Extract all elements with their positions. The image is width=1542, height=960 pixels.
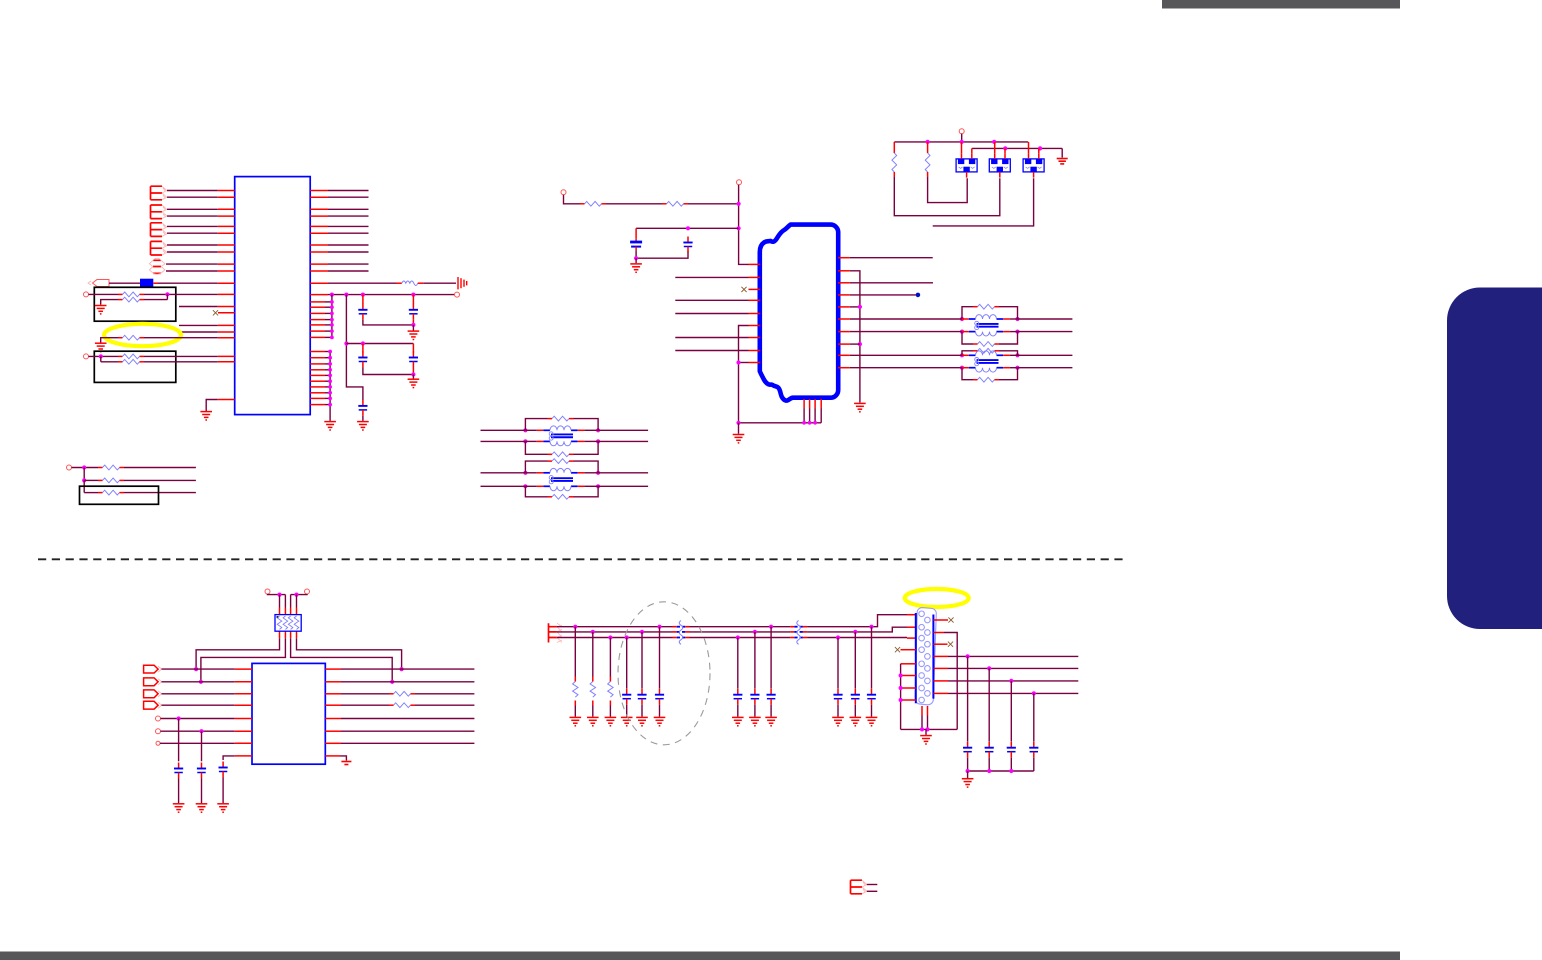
pin U1 left row 14 (NC) xyxy=(218,312,235,314)
header bar xyxy=(1162,0,1400,9)
pin U1 left row 9 xyxy=(218,263,235,265)
wire bus0 row 10 xyxy=(325,404,330,406)
wire U2 gnd bus xyxy=(739,326,822,423)
junction bus0 row 7 xyxy=(328,385,332,389)
pin U1 left row 13 xyxy=(218,306,235,308)
wire C15 to ground xyxy=(754,705,756,717)
junction T4 in2 xyxy=(523,484,527,488)
pin U1 left row 1 xyxy=(218,190,235,192)
junction bus1 row 7 xyxy=(330,336,334,340)
pin U1 right row 12 xyxy=(310,294,328,296)
resistor R12 xyxy=(925,148,930,177)
wire U2 left 313 xyxy=(675,313,748,315)
pin pack bottom xyxy=(284,631,286,638)
pin U2 bottom 2 xyxy=(809,399,811,409)
capacitor C11 xyxy=(622,689,631,705)
wire C18 to rail xyxy=(988,758,990,771)
wire ground to R3 xyxy=(101,338,118,343)
wire U2 left 337 xyxy=(675,337,748,339)
wire U2 right 306 xyxy=(850,306,860,308)
wire U2 left 350 xyxy=(675,350,748,352)
capacitor C13 xyxy=(655,689,664,705)
bus wire 1 seg a xyxy=(557,626,673,628)
wire junction drop xyxy=(100,356,102,361)
pin U1 left row 19 xyxy=(218,361,235,363)
common-mode choke T2 xyxy=(962,351,1018,372)
pin U1 right bus1 row 4 xyxy=(310,319,325,321)
wire bus0 row 2 xyxy=(325,357,330,359)
bus connector (dual arrow, bottom) xyxy=(851,880,867,894)
wire T4 rbot right xyxy=(574,486,599,497)
wire U1 right row 9 xyxy=(328,263,369,265)
wire U2 bottom 1 xyxy=(803,409,805,423)
resistor R15 xyxy=(573,677,578,706)
off-page connector (round) pack B xyxy=(305,589,310,594)
ground below C4 xyxy=(408,379,420,387)
wire C9 to ground xyxy=(201,779,203,804)
bus wire 3 seg b xyxy=(690,637,791,639)
wire R17 drop xyxy=(609,638,611,677)
ground pin bus 0 xyxy=(324,422,336,430)
wire into T4 b xyxy=(481,485,526,487)
pin U1 left row 10 xyxy=(218,270,235,272)
wire T3 rtop left xyxy=(525,419,547,431)
wire out T4 b xyxy=(598,485,648,487)
wire U1 left row 19 xyxy=(144,361,218,363)
junction shell gnd xyxy=(925,727,929,731)
junction bus0 row 10 xyxy=(328,403,332,407)
pin U1 left row 17 xyxy=(218,337,235,339)
pin U3 right row 7 xyxy=(325,742,341,744)
capacitor C15 xyxy=(750,689,759,705)
pin U1 left row 16 xyxy=(218,331,235,333)
net stub dot (blue) xyxy=(916,293,921,298)
junction row1 right xyxy=(400,667,404,671)
wire U3 right row 2 xyxy=(341,681,474,683)
wire sub row 2 xyxy=(84,479,98,481)
wire bus0 row 6 xyxy=(325,380,330,382)
ground U2 left xyxy=(733,435,745,443)
junction bus0 row 1 xyxy=(328,350,332,354)
bus connector pair 3 xyxy=(151,223,167,237)
footer bar xyxy=(0,952,1400,960)
wire CN1 signal y656 xyxy=(948,655,1078,657)
wire out T2 b xyxy=(1018,367,1073,369)
wire row 362 to bus xyxy=(739,362,749,364)
wire U2 right 331 xyxy=(850,331,941,333)
ground below C15 xyxy=(749,717,761,725)
wire U3 right row 3a xyxy=(341,693,389,695)
input arrow connector 2 xyxy=(144,678,162,686)
input arrow connector 4 xyxy=(144,701,162,709)
module U2 (thick outline) xyxy=(760,225,838,401)
wire U1 left row 4 xyxy=(167,215,218,217)
junction bus2/cap rail xyxy=(344,341,348,345)
pin U1 left row 2 xyxy=(218,196,235,198)
pin U2 bottom 4 xyxy=(820,399,822,409)
wire into T3 b xyxy=(481,440,526,442)
pin CN1 shell x922 xyxy=(921,706,923,716)
junction row1 left xyxy=(194,667,198,671)
wire C20 drop xyxy=(1033,693,1035,741)
pin U2 bottom 3 xyxy=(814,399,816,409)
wire shell to gnd rail xyxy=(921,716,923,730)
ground below C6 xyxy=(630,264,642,272)
pin U2 left y277 xyxy=(749,276,761,278)
junction cap rail C3 xyxy=(361,341,365,345)
wire U2 right 344 xyxy=(850,343,860,345)
junction T1 out1 xyxy=(1015,317,1019,321)
pin U1 right bus0 row 8 xyxy=(310,392,325,394)
wire U3 left row 7 xyxy=(160,742,235,744)
resistor R16 xyxy=(590,677,595,706)
junction rail b xyxy=(987,769,991,773)
wire pack top lead xyxy=(284,595,286,608)
wire U3 left row 2 xyxy=(162,681,235,683)
pin U2 left y325 xyxy=(749,325,761,327)
pin U1 right bus1 row 3 xyxy=(310,312,325,314)
bus wire 3 seg c xyxy=(807,637,907,639)
resistor R3 xyxy=(118,335,144,340)
junction C21 xyxy=(836,635,840,639)
wire R11 to Y2 bottom xyxy=(894,177,1000,216)
off-page connector (round) U3 row7 xyxy=(156,741,160,745)
pin CN1 y688 xyxy=(901,687,916,689)
junction C23 xyxy=(869,625,873,629)
wire rail 1 xyxy=(894,141,1028,143)
wire U3 right row 6 xyxy=(341,730,474,732)
wire U2 left 300 xyxy=(675,299,748,301)
wire U3 right row 7 xyxy=(341,742,474,744)
junction C14 xyxy=(736,635,740,639)
resistor R11 xyxy=(892,148,897,177)
wire U1 left row 7 xyxy=(167,244,218,246)
junction R15 xyxy=(573,625,577,629)
wire packB top xyxy=(291,593,307,596)
junction T3 out1 xyxy=(596,428,600,432)
wire T4 rtop left xyxy=(525,461,547,473)
pin pack bottom xyxy=(279,631,281,638)
junction T4 out1 xyxy=(596,471,600,475)
pin C1 top lead xyxy=(362,295,364,304)
pin CN1 p2 xyxy=(907,626,916,628)
resistor T1 top xyxy=(973,304,999,309)
ground U1 bottom-left xyxy=(200,412,212,420)
pin CN1 y693 xyxy=(933,692,948,694)
junction bus0 row 3 xyxy=(328,362,332,366)
ground CN1 xyxy=(920,736,932,744)
bus wire 3 seg a xyxy=(557,637,673,639)
resistor R9 xyxy=(580,201,606,206)
off-page connector (round) mid-left xyxy=(561,190,566,195)
wire C21 to ground xyxy=(837,705,839,717)
wire T2 rtop right xyxy=(999,351,1018,356)
ground below C9 xyxy=(196,804,208,812)
wire cap gnd rail xyxy=(968,770,1034,772)
pin U1 right bus0 row 7 xyxy=(310,386,325,388)
wire U1 left row 15 xyxy=(179,324,218,326)
junction bus1 row 4 xyxy=(330,318,334,322)
wire U1 left row 3 xyxy=(167,208,218,210)
pin U3 right row 4 xyxy=(325,704,341,706)
wire to ground xyxy=(925,729,927,735)
bus connector pair 4 xyxy=(151,241,167,255)
ground below R16 xyxy=(587,717,599,725)
wire CN1 p11 loop xyxy=(944,633,957,730)
no-connect X CN1 p4 xyxy=(895,647,900,652)
no-connect X CN1 p12 xyxy=(948,642,953,647)
junction bus0 row 4 xyxy=(328,368,332,372)
pin U3 right row 5 xyxy=(325,718,341,720)
junction rail/caps xyxy=(737,226,741,230)
pin U1 right row 7 xyxy=(310,244,328,246)
off-page connector (round) top-right xyxy=(959,129,964,134)
pin U1 right bus0 row 4 xyxy=(310,369,325,371)
wire into T1 a xyxy=(941,318,962,320)
resistor R8 xyxy=(98,490,124,495)
wire out T4 a xyxy=(598,472,648,474)
wire into T1 b xyxy=(941,331,962,333)
side tab xyxy=(1447,288,1542,630)
ground below R17 xyxy=(605,717,617,725)
wire sub drop 2 xyxy=(83,480,85,492)
wire bus0 row 9 xyxy=(325,397,330,399)
junction gnd bus row 362 xyxy=(736,360,740,364)
pin FB1 right lead xyxy=(153,282,158,284)
wire CN1 signal y680 xyxy=(948,680,1078,682)
wire packA top xyxy=(268,593,286,596)
wire branch bus 2 xyxy=(346,295,363,400)
junction T2 out1 xyxy=(1015,353,1019,357)
bidirectional round connector pair xyxy=(149,258,165,274)
capacitor C4 xyxy=(409,352,418,368)
wire U3 right row 4b xyxy=(415,704,474,706)
wire U1 right row 8 xyxy=(328,251,369,253)
wire Y3 bottom out xyxy=(933,178,1034,226)
wire C19 to rail xyxy=(1010,758,1012,771)
bus wire 1 seg b xyxy=(690,626,791,628)
wire U2 bottom 4 xyxy=(820,409,822,423)
resonator Y1 xyxy=(956,153,977,177)
pin Y3 right top xyxy=(1038,148,1040,153)
pin U1 right bus0 row 1 xyxy=(310,351,325,353)
ground below R3 xyxy=(95,343,107,351)
pin U2 right y344 xyxy=(838,343,850,345)
junction R17 xyxy=(608,635,612,639)
wire into T4 a xyxy=(481,472,526,474)
junction C13 xyxy=(657,625,661,629)
common-mode choke T1 xyxy=(962,315,1018,336)
pin C3 top lead xyxy=(362,344,364,353)
capacitor C17 xyxy=(963,742,972,758)
junction U2 bottom 1 xyxy=(802,421,806,425)
pin R12 top xyxy=(927,142,929,148)
wire U3 left row 1 xyxy=(162,668,235,670)
junction rail c xyxy=(1009,769,1013,773)
wire U3 left row 4 xyxy=(162,704,235,706)
IC U3 xyxy=(252,663,325,764)
pin U3 left row 4 xyxy=(235,704,252,706)
junction T1 in2 xyxy=(960,330,964,334)
junction sub row 1 xyxy=(82,465,86,469)
input arrow connector 1 xyxy=(144,665,162,673)
wire sub row 3 out xyxy=(124,492,196,494)
pin CN1 y700 xyxy=(901,699,916,701)
bus entry connector (3-wire) xyxy=(549,623,563,642)
capacitor C1 xyxy=(358,304,367,320)
wire shell to gnd rail xyxy=(927,716,929,730)
wire junction drop xyxy=(166,294,168,299)
junction bus1 row 6 xyxy=(330,329,334,333)
pin U2 left y300 xyxy=(749,299,761,301)
wire U1 left row 18 xyxy=(144,355,218,357)
wire T2 rtop left xyxy=(962,351,973,356)
pin U2 right y294 xyxy=(838,294,850,296)
capacitor C2 xyxy=(409,304,418,320)
pin U2 left y362 xyxy=(749,362,761,364)
pin U2 right y270 xyxy=(838,270,850,272)
resistor R5 xyxy=(118,359,144,364)
junction bus0 row 2 xyxy=(328,356,332,360)
wire out T1 b xyxy=(1018,331,1073,333)
capacitor C22 xyxy=(851,689,860,705)
ground below C5 xyxy=(357,422,369,430)
wire C3 bottom rail xyxy=(363,368,414,375)
ground below C13 xyxy=(654,717,666,725)
highlight ellipse (yellow, CRT connector) xyxy=(905,589,969,607)
junction sub row 2 xyxy=(82,478,86,482)
wire out T3 a xyxy=(598,429,648,431)
pin CN1 p5 xyxy=(901,663,916,665)
wire pack2 to row2 left xyxy=(201,638,286,682)
wire bus1 row 3 xyxy=(325,312,332,314)
pin CN1 p1 xyxy=(907,614,916,616)
wire U3 left row 5 xyxy=(161,718,235,720)
wire C12 to ground xyxy=(641,705,643,717)
junction T3 out2 xyxy=(596,439,600,443)
wire R16 drop xyxy=(592,632,594,677)
off-page connector (round) U3 row6 xyxy=(156,729,161,734)
junction C15 xyxy=(753,630,757,634)
junction rail2 Y2 xyxy=(1003,146,1007,150)
shield box B1 xyxy=(94,287,176,321)
junction C12 xyxy=(640,630,644,634)
chassis ground (top-left) xyxy=(458,277,467,289)
wire C20 to rail xyxy=(1033,758,1035,771)
pin U1 right row 3 xyxy=(310,208,328,210)
shield box B2 xyxy=(94,351,176,382)
resistor R14 xyxy=(389,703,415,708)
capacitor C10 xyxy=(219,762,228,778)
wire sub row 1 xyxy=(72,467,99,469)
pin C4 top lead xyxy=(412,344,414,353)
wire U2 right gnd bus xyxy=(850,271,860,403)
pin CN1 p10 xyxy=(933,619,948,621)
wire C17 drop xyxy=(967,656,969,741)
wire conn to rail1 xyxy=(961,134,963,142)
wire rail2 to chassis xyxy=(1061,148,1063,157)
pin U2 right y319 xyxy=(838,318,850,320)
wire C15 drop xyxy=(754,632,756,689)
resistor R1 xyxy=(118,292,144,297)
ground below C12 xyxy=(636,717,648,725)
capacitor C16 xyxy=(767,689,776,705)
junction CN1 gnd y700 xyxy=(899,698,903,702)
wire C11 to ground xyxy=(626,705,628,717)
pin U2 bottom 1 xyxy=(803,399,805,409)
wire CN1 gnd bus xyxy=(900,664,902,730)
junction R16 xyxy=(591,630,595,634)
inductor L1 xyxy=(396,281,423,286)
input arrow connector 3 xyxy=(144,690,162,698)
pin U1 right bus0 row 6 xyxy=(310,380,325,382)
pin U1 right bus1 row 5 xyxy=(310,324,325,326)
wire C5 to ground xyxy=(362,416,364,421)
wire T4 rtop right xyxy=(574,461,599,473)
wire C14 drop xyxy=(737,638,739,689)
pin U1 right bus1 row 2 xyxy=(310,306,325,308)
junction T3 in2 xyxy=(523,439,527,443)
pin U3 left row 3 xyxy=(235,693,252,695)
capacitor C3 xyxy=(358,352,367,368)
wire U1 left row 12 xyxy=(144,293,218,295)
wire out T3 b xyxy=(598,440,648,442)
wire T1 rtop left xyxy=(962,307,973,319)
junction C19 tap xyxy=(1009,679,1013,683)
wire R2 to junction xyxy=(144,299,167,301)
pin U1 left row 5 xyxy=(218,225,235,227)
wire T2 rbot left xyxy=(962,368,973,380)
pin Y2 right top xyxy=(1004,148,1006,153)
resistor pack RP1 xyxy=(275,615,301,632)
section divider dashed line xyxy=(38,558,1124,560)
junction right bus 306 xyxy=(858,305,862,309)
pin U1 right row 6 xyxy=(310,232,328,234)
pin U1 right bus1 row 1 xyxy=(310,301,325,303)
pin U2 right y257 xyxy=(838,257,850,259)
wire pack top lead xyxy=(296,595,298,608)
pin U1 left row 8 xyxy=(218,251,235,253)
pin U1 right bus0 row 5 xyxy=(310,374,325,376)
resistor R7 xyxy=(98,478,124,483)
pin pack top xyxy=(290,608,292,615)
wire T1 rbot right xyxy=(999,332,1018,344)
junction pack pin4 xyxy=(294,593,298,597)
ground below R15 xyxy=(570,717,582,725)
wire bottom conn a xyxy=(867,884,878,886)
wire C13 drop xyxy=(659,627,661,689)
bus connector pair 1 xyxy=(151,186,167,200)
resistor R10 xyxy=(662,201,688,206)
wire T3 rbot left xyxy=(525,441,547,454)
capacitor C23 xyxy=(867,689,876,705)
resistor T4 top xyxy=(548,459,574,464)
junction row12 x331 xyxy=(330,293,334,297)
resistor R17 xyxy=(608,677,613,706)
off-page connector (round) sub xyxy=(67,465,72,470)
wire T2 rbot right xyxy=(999,368,1018,380)
wire U1 right row 5 xyxy=(328,225,369,227)
wire U1 right row 6 xyxy=(328,232,369,234)
resonator Y2 xyxy=(989,153,1010,177)
junction row12 x413 xyxy=(411,293,415,297)
pin CN1 shell x927.5 xyxy=(927,706,929,716)
bus wire 2 seg a xyxy=(557,631,673,633)
wire CN1 signal y693 xyxy=(948,692,1078,694)
junction C17 tap xyxy=(966,654,970,658)
wire U1 left row 10 xyxy=(166,270,218,272)
no-connect X U2 xyxy=(741,287,746,292)
